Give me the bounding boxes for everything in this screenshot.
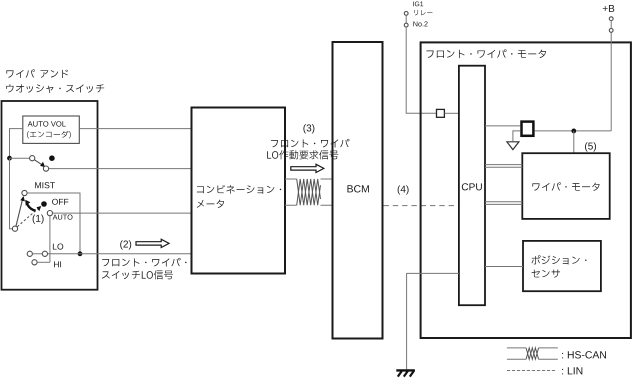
legend label: HS-CAN [562,351,606,358]
contact: MIST [22,190,27,195]
component: driver square (thick) [522,122,534,136]
contacts: LO pair [27,251,32,256]
signal arrow (3) [291,164,324,172]
wire: encoder output to combination meter [49,168,192,170]
connector: IG1 relay No.2 terminals [404,12,408,16]
ground symbol [396,369,415,371]
label: (1) [33,215,44,224]
front wiper motor box [421,42,631,338]
wire: LO line to combination meter [48,253,192,255]
symbol: open down-arrow (ground arrow) [507,142,519,150]
label: position sensor [531,255,586,264]
legend label: LIN [562,367,582,374]
node: wiper motor feed junction [571,129,576,134]
wire: IG1 relay to in-line connector [406,15,436,113]
wiper motor box [522,153,609,219]
rotation arrow (curved) [27,204,35,210]
label: (2) [120,240,131,249]
label: (3) [303,124,314,133]
wire: CPU to position sensor [485,266,523,268]
connector: in-line square on IG1 wire [437,109,445,117]
contact: HI [32,260,37,265]
wire: connector to CPU [444,112,459,114]
label: +B [603,5,614,12]
label: IG1 relay No.2 [413,1,423,6]
legend: LIN symbol (dashed) [507,370,556,372]
label: MIST [35,182,55,188]
wire: driver square to +B line [535,130,612,132]
label: front wiper LO request signal [271,139,350,148]
contact: AUTO [47,211,52,216]
wire: CPU ground lead [407,273,459,369]
wire: CPU to driver square [485,125,520,127]
node: LO line junction [78,251,83,256]
+B supply [610,32,612,131]
contact: rotary switch pivot [12,226,17,231]
combination meter box [192,108,286,274]
label: front wiper switch LO signal [102,258,186,267]
contact: encoder lower contact [43,166,48,171]
contact: encoder upper fixed contact (filled) [49,155,55,161]
wire: MIST contact to LO junction [27,193,80,254]
label: combination meter [197,185,281,194]
wire: AUTO down to HI level [49,216,51,262]
wiper and washer switch box [2,101,98,290]
wires: CPU to wiper motor (double pair lower) [485,202,522,205]
BCM box [333,42,383,339]
wire: AUTO VOL left to common node [10,129,23,159]
wire: AUTO VOL right to combination meter [79,128,191,130]
wire: LO contact pair link [33,253,43,255]
LIN bus: BCM to CPU (dashed) [384,205,459,207]
wire: common node down to rotary switch pivot [10,158,13,229]
wire: junction down to wiper motor [573,131,575,153]
label: wiper and washer switch [6,69,34,78]
label: BCM [347,185,368,192]
signal arrow (2) [136,239,169,247]
HS-CAN bus: meter to BCM (twisted pair) [285,178,333,180]
AUTO VOL (encoder) box [23,116,80,143]
wires: CPU to wiper motor (double pair upper) [485,165,522,168]
switch: encoder moving contact with arrowhead [30,156,35,161]
contact: OFF (filled) [41,201,47,207]
wire: junction to encoder switch pole [10,157,30,159]
label: OFF [52,199,68,205]
wire: driver square branch to arrow [513,131,520,141]
switch arm: dashed arm toward OFF with arrowhead [17,209,38,227]
wire: AUTO contact to combination meter [53,212,192,214]
label: (5) [585,142,596,151]
label: AUTO [53,215,73,220]
label: CPU [462,183,482,190]
position sensor box [523,241,601,291]
switch arm: solid arm to MIST with arrowhead [16,200,23,227]
label: wiper motor [532,182,599,191]
label: HI [54,261,61,267]
node: encoder common junction [7,156,12,161]
CPU box [459,66,485,306]
label: (4) [398,185,409,194]
wire: HI contact to vertical [37,261,50,263]
label: LO [53,243,63,249]
legend: HS-CAN symbol [507,347,558,349]
label: front wiper motor [426,49,546,58]
